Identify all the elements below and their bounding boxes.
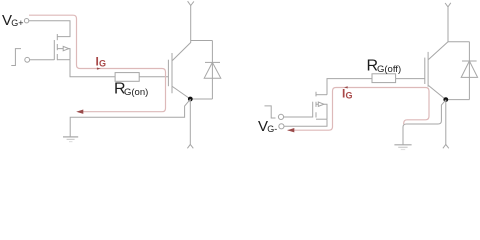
wire resistor to IGBT gate right [396, 78, 425, 80]
wire VG- to Q2 source [284, 119, 327, 126]
wire gate input to Q2 gate [284, 116, 313, 118]
svg-text:G: G [346, 90, 353, 100]
svg-text:G(off): G(off) [377, 64, 401, 75]
ground left [63, 137, 78, 142]
terminal gate input left [25, 57, 30, 62]
node VG- label [258, 118, 277, 135]
transistor Q2 (NMOS) [313, 92, 327, 120]
arrow loop return right [287, 128, 294, 132]
wire emitter to ground left [70, 100, 190, 137]
wire current loop right (pink) [288, 88, 430, 131]
resistor RG(off) [372, 74, 396, 83]
terminal gate input right [278, 114, 283, 119]
wire VG+ to Q1 drain [29, 21, 70, 37]
label IG left [96, 55, 107, 69]
svg-text:G: G [99, 59, 106, 69]
terminal VG+ [24, 19, 28, 23]
terminal VG- [279, 124, 284, 129]
label RG(on) [114, 81, 148, 99]
wire diode bottom to emitter node [190, 98, 212, 100]
IGBT T1 [168, 5, 190, 99]
svg-text:G(on): G(on) [124, 87, 148, 98]
label IG right [342, 86, 353, 100]
pulse symbol rising edge [11, 49, 21, 66]
collector continuation arrow top left [188, 1, 194, 5]
svg-text:G-: G- [267, 124, 277, 134]
Q2 body arrow [318, 102, 324, 106]
wire current loop left (pink) [29, 15, 166, 112]
emitter continuation arrow bottom left [187, 144, 193, 148]
node emitter junction left [188, 97, 193, 102]
transistor Q1 (PMOS) [54, 34, 70, 60]
emitter continuation arrow bottom right [443, 144, 449, 148]
node emitter junction right [443, 97, 448, 102]
wire resistor to IGBT gate [139, 76, 168, 78]
IGBT T2 [425, 6, 448, 99]
pulse symbol falling edge [265, 106, 276, 118]
arrow IG direction right [344, 86, 348, 88]
wire Q2 drain to resistor RG(off) [327, 79, 372, 95]
wire gate input to Q1 gate [30, 59, 55, 61]
wire emitter down right [445, 100, 447, 145]
arrow IG direction left [97, 68, 101, 70]
arrow loop return left [76, 110, 83, 114]
diode D1 [204, 41, 221, 100]
diode D2 [461, 42, 477, 100]
wire collector to diode D2 [448, 41, 469, 43]
resistor RG(on) [115, 73, 139, 82]
wire diode bottom to emitter node right [446, 99, 470, 101]
node VG+ label [2, 12, 24, 29]
ground right [394, 145, 411, 150]
wire emitter to ground right [403, 100, 446, 144]
wire Q1 output to resistor [70, 60, 115, 77]
svg-text:G+: G+ [11, 18, 23, 28]
wire emitter down [189, 99, 191, 145]
wire collector to diode D1 [191, 40, 213, 42]
Q1 body arrow [63, 46, 69, 50]
label RG(off) [367, 58, 402, 76]
collector continuation arrow top right [445, 3, 451, 7]
